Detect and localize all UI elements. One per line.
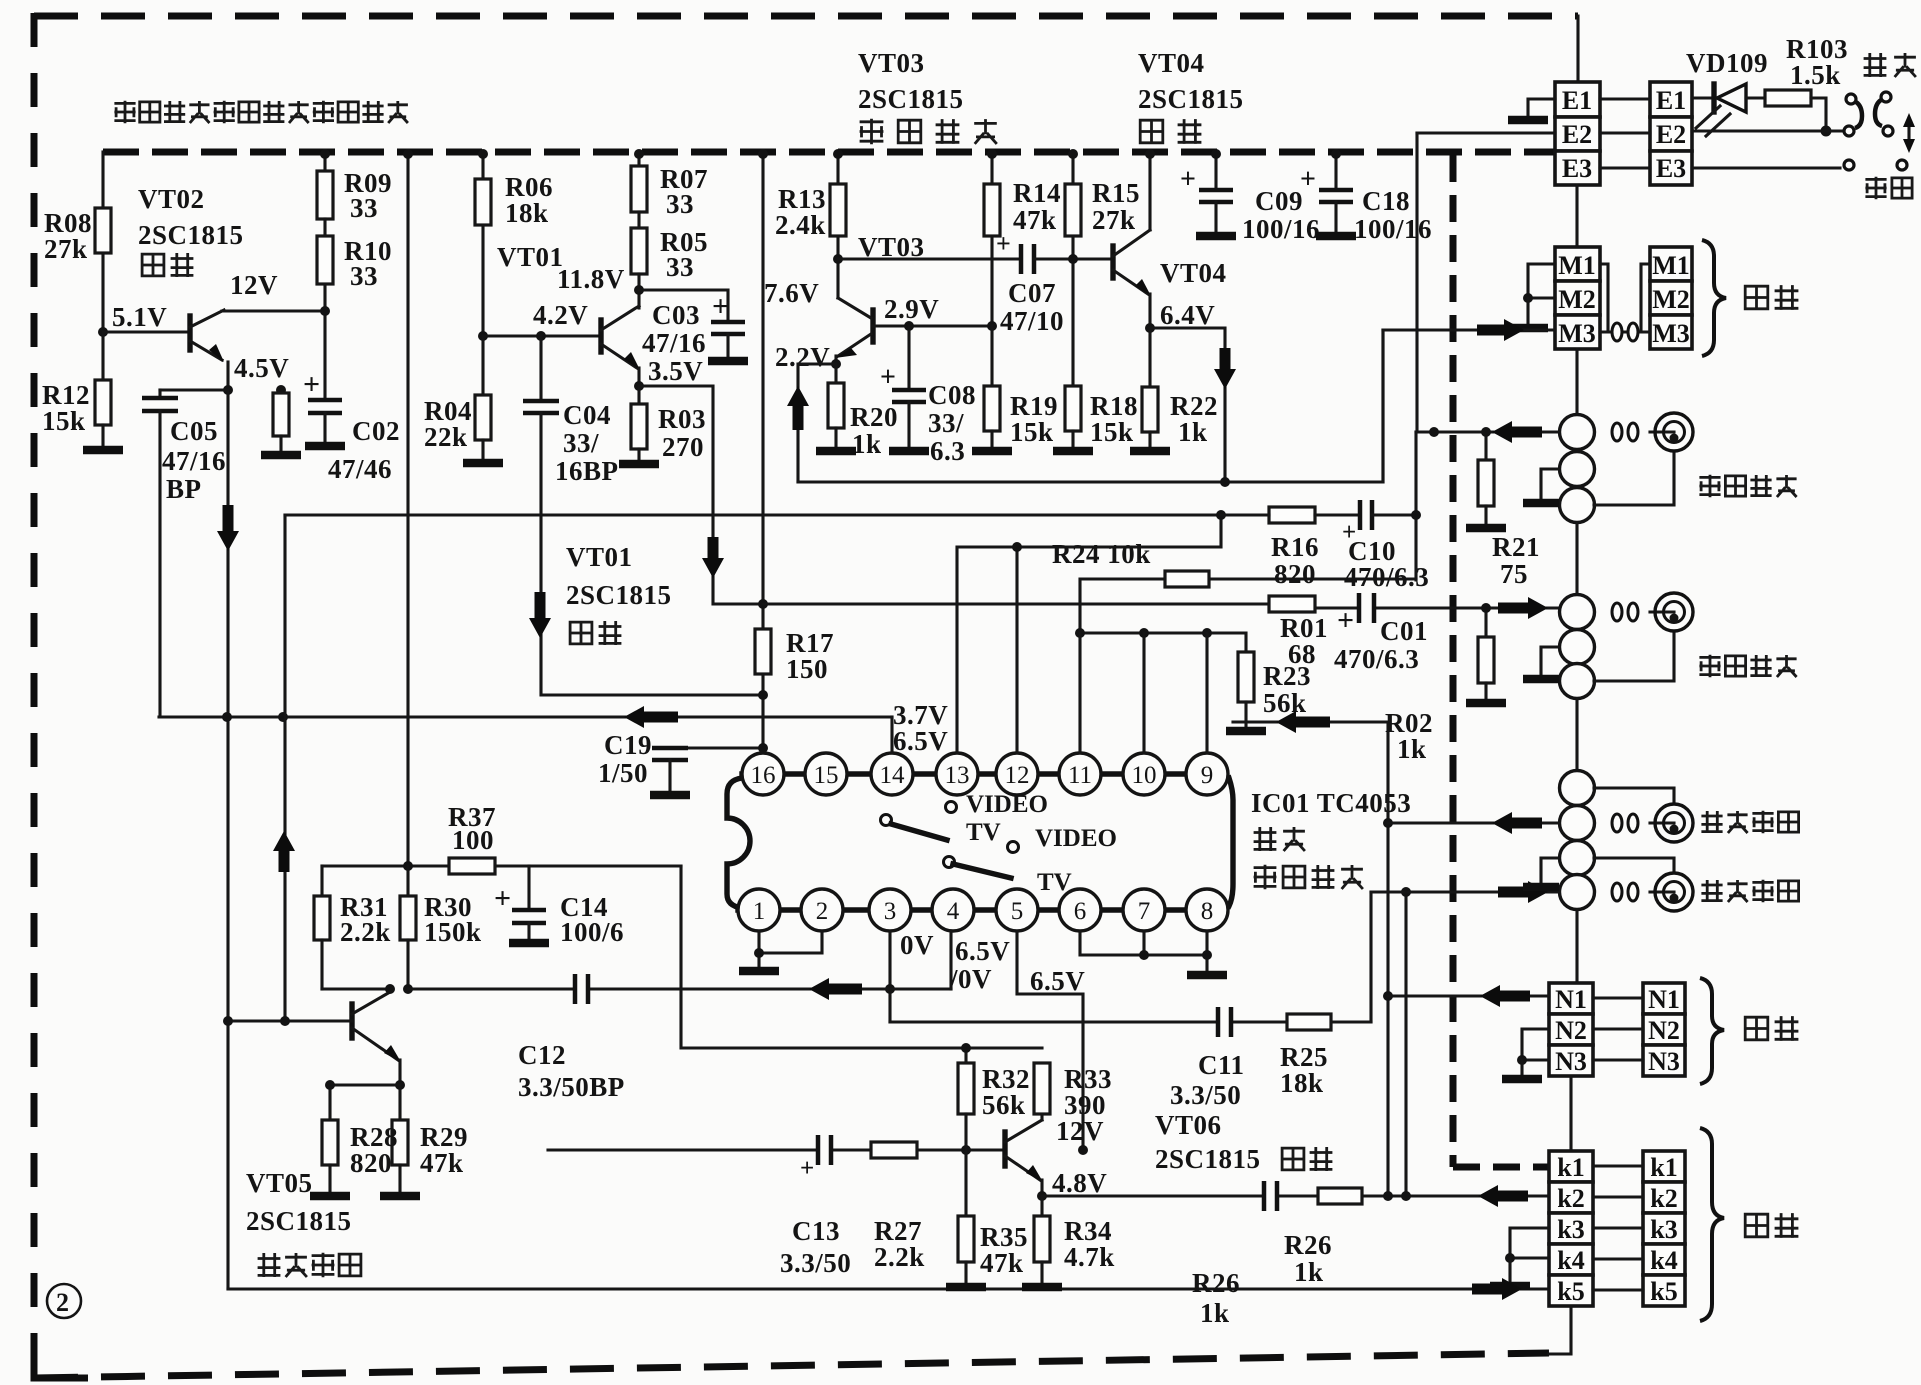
- ground under C09: [1196, 232, 1236, 241]
- svg-text:15k: 15k: [1090, 417, 1134, 447]
- VT05 emitter node: [398, 1060, 401, 1085]
- outer dashed enclosure border top: [34, 13, 1578, 20]
- svg-text:4: 4: [947, 898, 960, 925]
- ground under R04: [463, 459, 503, 468]
- resistor R14: [990, 152, 993, 184]
- pin 1: [738, 889, 780, 931]
- connector k3 right: [1643, 1213, 1685, 1244]
- capacitor C18 electrolytic: [1334, 152, 1337, 190]
- connector k2 right: [1643, 1182, 1685, 1213]
- svg-text:VIDEO: VIDEO: [1035, 825, 1117, 852]
- svg-text:E2: E2: [1656, 120, 1686, 149]
- bus M3 riser crossing: [1381, 330, 1384, 482]
- svg-text:VT04: VT04: [1138, 48, 1205, 78]
- svg-text:470/6.3: 470/6.3: [1334, 644, 1419, 674]
- pin 6: [1059, 889, 1101, 931]
- wire R15 to VT04 base line: [1071, 236, 1074, 386]
- wire C04 down to line with arrow to R17 bottom: [541, 413, 763, 695]
- resistor R27 horizontal: [871, 1142, 917, 1158]
- feedback wire left of emitter with up arrow: [798, 364, 836, 482]
- IC body outline with notch: [727, 778, 750, 908]
- svg-text:C08: C08: [928, 380, 976, 410]
- svg-text:13: 13: [945, 762, 970, 789]
- wire R19 ground: [990, 431, 993, 448]
- wire R22 ground: [1148, 432, 1151, 448]
- svg-text:5.1V: 5.1V: [112, 302, 167, 332]
- svg-text:100: 100: [452, 825, 494, 855]
- audio-out contacts: [1612, 883, 1622, 901]
- svg-text:2SC1815: 2SC1815: [858, 84, 964, 114]
- ground under R02: [1466, 699, 1506, 708]
- wire video-out to audio group: [1575, 699, 1578, 771]
- svg-text:820: 820: [1274, 559, 1316, 589]
- resistor R30: [406, 866, 409, 896]
- resistor R02: [1484, 608, 1487, 637]
- pin11 riser: [1078, 633, 1081, 753]
- M1 M2 ground ties: [1528, 264, 1555, 298]
- E2 wire to bus: [1417, 131, 1555, 134]
- svg-text:2.2k: 2.2k: [874, 1242, 925, 1272]
- N brace: [1700, 978, 1724, 1084]
- resistor R01 horizontal: [1269, 596, 1315, 612]
- svg-text:+: +: [303, 368, 321, 401]
- svg-text:7: 7: [1138, 898, 1151, 925]
- svg-text:M2: M2: [1652, 285, 1690, 314]
- video-in line with arrow: [1416, 430, 1559, 433]
- transistor VT04: [1110, 246, 1115, 278]
- svg-text:1k: 1k: [1397, 734, 1427, 764]
- wire R13 to collector node: [836, 236, 839, 298]
- svg-text:VT02: VT02: [138, 184, 205, 214]
- wire emitter right and down to R17 top line: [639, 386, 763, 604]
- audio-out sleeve jumper: [1594, 858, 1674, 873]
- ground at E1: [1508, 116, 1548, 125]
- IC right edge: [1229, 778, 1233, 906]
- wire audio group down to N1: [1575, 910, 1578, 983]
- audio-in line with arrow: [1388, 821, 1559, 824]
- wire R18 ground: [1071, 431, 1074, 448]
- VT02 collector wire to 12V node: [222, 309, 325, 312]
- svg-text:15k: 15k: [1010, 417, 1054, 447]
- resistor R19: [990, 326, 993, 386]
- svg-text:2.2V: 2.2V: [775, 342, 830, 372]
- svg-text:N3: N3: [1648, 1047, 1680, 1076]
- VT05 collector line to C12: [322, 989, 951, 992]
- connector N1 right: [1643, 983, 1685, 1014]
- label vt04cn: [1140, 119, 1201, 144]
- svg-text:C13: C13: [792, 1216, 840, 1246]
- ground under C14: [509, 939, 549, 948]
- svg-text:M1: M1: [1558, 251, 1596, 280]
- N row links: [1593, 998, 1643, 1060]
- audio line down to VT05 base: [283, 515, 286, 1021]
- base node: [961, 1145, 971, 1155]
- connector k4 right: [1643, 1244, 1685, 1275]
- svg-text:14: 14: [880, 762, 906, 789]
- ground at M2: [1508, 324, 1548, 333]
- svg-text:7.6V: 7.6V: [764, 278, 819, 308]
- pin 13: [936, 753, 978, 795]
- M1 link drop right: [1641, 264, 1650, 332]
- signal arrow down on VT04 output: [1220, 348, 1231, 373]
- svg-text:E2: E2: [1562, 120, 1592, 149]
- pin10 riser: [1142, 633, 1145, 753]
- svg-text:VT05: VT05: [246, 1168, 313, 1198]
- audio-in contacts: [1612, 814, 1622, 832]
- label vout: [1699, 655, 1796, 678]
- svg-text:12: 12: [1005, 762, 1030, 789]
- pin12 riser to video out line: [1015, 547, 1018, 753]
- svg-text:33: 33: [350, 261, 378, 291]
- svg-text:N3: N3: [1555, 1047, 1587, 1076]
- svg-text:M3: M3: [1652, 319, 1690, 348]
- resistor R31: [320, 866, 323, 896]
- video-out arrow: [1498, 603, 1532, 614]
- k5 wire down to border: [1549, 1306, 1571, 1354]
- label ic_switch: [1254, 865, 1363, 889]
- wire R05 to collector node: [637, 274, 640, 308]
- ground under R12: [83, 446, 123, 455]
- wire C08 ground: [907, 402, 910, 448]
- svg-text:15: 15: [814, 762, 839, 789]
- svg-text:1k: 1k: [1178, 417, 1208, 447]
- pin4 riser down to C12 line: [949, 931, 952, 989]
- R25 riser to audio out: [1369, 892, 1372, 1022]
- svg-text:27k: 27k: [1092, 205, 1136, 235]
- wire from outer border corner down to E1: [1576, 16, 1579, 82]
- svg-text:R24 10k: R24 10k: [1052, 539, 1151, 569]
- audio-out mid contact ground: [1541, 858, 1559, 884]
- svg-text:C19: C19: [604, 730, 652, 760]
- ground under R21: [1466, 524, 1506, 533]
- pin 8: [1186, 889, 1228, 931]
- svg-text:+: +: [494, 882, 512, 915]
- pin 15: [805, 753, 847, 795]
- connector E1 left: [1555, 82, 1600, 117]
- svg-text:VT01: VT01: [566, 542, 633, 572]
- resistor R11 (unlabelled) on emitter node: [279, 390, 282, 393]
- svg-text:N2: N2: [1555, 1016, 1587, 1045]
- pin14 riser: [890, 717, 893, 753]
- ground under R11: [261, 451, 301, 460]
- ground under C19: [650, 791, 690, 800]
- svg-text:C18: C18: [1362, 186, 1410, 216]
- svg-text:47/16: 47/16: [642, 328, 706, 358]
- emitter wire left to C05: [160, 388, 228, 391]
- capacitor C05: [158, 390, 161, 398]
- wire collector node to C03: [639, 290, 728, 322]
- svg-text:2: 2: [56, 1288, 70, 1317]
- svg-text:N1: N1: [1555, 985, 1587, 1014]
- resistor R26 horizontal: [1318, 1188, 1362, 1204]
- coupling capacitor on k2 line: [1264, 1181, 1277, 1211]
- svg-text:820: 820: [350, 1148, 392, 1178]
- label vt06cn: [1282, 1147, 1332, 1171]
- wire R14 to base node: [990, 236, 993, 326]
- connector M3 left: [1555, 315, 1600, 349]
- svg-text:k5: k5: [1650, 1277, 1677, 1306]
- resistor R13: [836, 152, 839, 184]
- ground under pin8: [1187, 971, 1227, 980]
- svg-text:10: 10: [1132, 762, 1157, 789]
- ground under pin1: [739, 967, 779, 976]
- svg-text:33: 33: [350, 193, 378, 223]
- node R10 / collector: [323, 284, 326, 400]
- wire R12 to ground: [101, 425, 104, 448]
- ground under R22: [1130, 447, 1170, 456]
- RCA jack audio out: [1650, 890, 1674, 893]
- svg-text:3.3/50: 3.3/50: [780, 1248, 851, 1278]
- connector N3 left: [1549, 1045, 1593, 1076]
- 12V riser to VT05 rail: [406, 152, 409, 866]
- svg-text:11.8V: 11.8V: [557, 264, 625, 294]
- VT03 emitter node 2.2V: [834, 356, 837, 364]
- svg-text:R26: R26: [1192, 1268, 1240, 1298]
- pin 12: [996, 753, 1038, 795]
- IC top pin chain: [742, 771, 1186, 776]
- pin16 / R17 riser from rail: [761, 152, 764, 753]
- wire base node to R04: [481, 336, 484, 395]
- svg-text:4.7k: 4.7k: [1064, 1242, 1115, 1272]
- diode VD109: [1692, 96, 1712, 99]
- resistor R09: [323, 152, 326, 171]
- label aout: [1701, 880, 1798, 903]
- svg-text:+: +: [1180, 164, 1196, 195]
- svg-text:R26: R26: [1284, 1230, 1332, 1260]
- wire rail down through R06: [481, 152, 484, 179]
- wire R09-R10: [323, 219, 326, 236]
- svg-text:k2: k2: [1557, 1184, 1584, 1213]
- label vt05cn: [258, 1253, 361, 1277]
- PCB board right border (thick dashed): [1450, 155, 1457, 1167]
- svg-text:47k: 47k: [980, 1248, 1024, 1278]
- video-out switch circle 3: [1560, 664, 1595, 699]
- svg-text:6.3: 6.3: [930, 436, 965, 466]
- resistor R18: [1065, 386, 1081, 431]
- circled figure number 2: [47, 1284, 81, 1318]
- wire C03 to ground: [726, 334, 729, 358]
- M1 link drop left: [1600, 264, 1608, 332]
- pin 4: [932, 889, 974, 931]
- capacitor C10: [1360, 500, 1372, 530]
- label title: [114, 101, 408, 124]
- pin14 audio line: [159, 715, 892, 718]
- wire emitter right down to video-out line: [1150, 328, 1225, 482]
- capacitor C19: [688, 746, 763, 749]
- resistor R03: [637, 386, 640, 404]
- k row links: [1593, 1166, 1643, 1290]
- wire C10 to right bus: [1372, 513, 1416, 516]
- wire R31 to collector line: [320, 940, 323, 989]
- svg-text:100/16: 100/16: [1354, 214, 1432, 244]
- svg-text:1k: 1k: [1294, 1257, 1324, 1287]
- TV plug hooks: [1846, 94, 1856, 104]
- VT06 emitter node 4.8V: [1040, 1180, 1043, 1196]
- E3-E3 link: [1600, 166, 1650, 169]
- connector E3 left: [1555, 151, 1600, 185]
- transistor VT06: [1002, 1132, 1007, 1166]
- audio-out line with arrow: [1371, 890, 1559, 893]
- pin 10: [1123, 753, 1165, 795]
- pin 7: [1123, 889, 1165, 931]
- VT02 emitter node 4.5V: [226, 362, 229, 390]
- wire R06 to base node: [481, 225, 484, 336]
- svg-text:+: +: [880, 362, 896, 393]
- transistor VT05: [349, 1004, 354, 1038]
- signal arrow left on pin14 line: [640, 712, 678, 723]
- svg-text:270: 270: [662, 432, 704, 462]
- svg-text:M1: M1: [1652, 251, 1690, 280]
- svg-text:2SC1815: 2SC1815: [138, 220, 244, 250]
- connector N3 right: [1643, 1045, 1685, 1076]
- connector k5 left: [1549, 1275, 1593, 1306]
- ground under C08: [889, 447, 929, 456]
- pin3 riser down: [888, 931, 891, 1022]
- svg-text:E3: E3: [1656, 154, 1686, 183]
- svg-text:R14: R14: [1013, 178, 1061, 208]
- svg-text:C05: C05: [170, 416, 218, 446]
- resistor R28: [330, 1085, 400, 1120]
- connector k1 left: [1549, 1151, 1593, 1182]
- capacitor C08 electrolytic: [904, 321, 914, 331]
- pin 11: [1059, 753, 1101, 795]
- wire N3 to k1: [1569, 1076, 1572, 1151]
- signal arrow down on emitter bus: [223, 505, 234, 535]
- resistor R34: [1040, 1196, 1043, 1216]
- resistor R15: [1071, 152, 1074, 184]
- bus R24/C10 up: [1414, 432, 1417, 580]
- label vt02cn: [142, 253, 193, 277]
- ground under R19: [972, 447, 1012, 456]
- svg-text:k4: k4: [1650, 1246, 1677, 1275]
- svg-text:2: 2: [816, 898, 829, 925]
- svg-text:VD109: VD109: [1686, 48, 1768, 78]
- svg-text:M3: M3: [1558, 319, 1596, 348]
- E1-E1 link: [1600, 97, 1650, 100]
- audio switch circle 3: [1560, 841, 1595, 876]
- wire VT02 emitter bus down (audio): [226, 390, 229, 1289]
- svg-text:18k: 18k: [1280, 1068, 1324, 1098]
- svg-text:/0V: /0V: [949, 964, 992, 994]
- capacitor C02 electrolytic: [308, 400, 342, 413]
- connector N1 left: [1549, 983, 1593, 1014]
- svg-text:k1: k1: [1557, 1153, 1584, 1182]
- audio-in top jumper: [1594, 788, 1674, 804]
- resistor R10: [317, 236, 333, 284]
- RCA jack audio in: [1650, 821, 1674, 824]
- ground under R18: [1053, 447, 1093, 456]
- svg-text:3.3/50BP: 3.3/50BP: [518, 1072, 625, 1102]
- connector k5 right: [1643, 1275, 1685, 1306]
- capacitor C07: [1021, 244, 1034, 274]
- svg-text:0V: 0V: [900, 930, 934, 960]
- connector M1 right: [1650, 247, 1692, 281]
- svg-text:6.5V: 6.5V: [893, 726, 948, 756]
- PCB board top border (thick dashed 12V rail): [103, 149, 1555, 156]
- wire R16 to C10: [1221, 513, 1360, 516]
- up-down arrow: [1907, 124, 1910, 142]
- svg-text:VT03: VT03: [858, 48, 925, 78]
- svg-text:k2: k2: [1650, 1184, 1677, 1213]
- pin 3: [869, 889, 911, 931]
- PCB board bottom-right border stub to k1: [1453, 1164, 1549, 1171]
- svg-text:33: 33: [666, 189, 694, 219]
- label vt01cn: [570, 621, 621, 645]
- svg-text:47k: 47k: [420, 1148, 464, 1178]
- pin13 riser with jog to audio line: [957, 515, 1221, 753]
- svg-text:15k: 15k: [42, 406, 86, 436]
- audio switch circle 2: [1560, 806, 1595, 841]
- svg-text:E1: E1: [1656, 86, 1686, 115]
- signal arrow left on C12 line: [825, 984, 862, 995]
- svg-text:47/46: 47/46: [328, 454, 392, 484]
- svg-text:56k: 56k: [982, 1090, 1026, 1120]
- resistor R08: [95, 208, 111, 253]
- svg-text:VIDEO: VIDEO: [966, 791, 1048, 818]
- label zhuban_n: [1745, 1016, 1798, 1041]
- svg-text:+: +: [800, 1155, 814, 1182]
- svg-text:12V: 12V: [1056, 1116, 1104, 1146]
- svg-text:+: +: [1300, 164, 1316, 195]
- svg-text:3: 3: [884, 898, 897, 925]
- emitter output line to k2: [1042, 1194, 1549, 1197]
- connector N2 left: [1549, 1014, 1593, 1045]
- svg-text:2SC1815: 2SC1815: [1155, 1144, 1261, 1174]
- svg-text:TV: TV: [1037, 869, 1072, 896]
- resistor R06: [475, 179, 491, 225]
- pin9 riser: [1205, 633, 1208, 753]
- connector M2 left: [1555, 281, 1600, 315]
- E2-E2 link: [1600, 131, 1650, 134]
- VT04 emitter node 6.4V: [1148, 294, 1151, 328]
- capacitor C04: [539, 336, 542, 401]
- M brace: [1702, 240, 1726, 356]
- video-in switch circle 3: [1560, 488, 1595, 523]
- video contact circles: [1844, 160, 1854, 170]
- connector M3 right: [1650, 315, 1692, 349]
- label zhuban_m: [1745, 285, 1798, 310]
- video-out switch circle 2: [1560, 630, 1595, 665]
- pin 9: [1186, 753, 1228, 795]
- signal arrow down on emitter wire: [708, 537, 719, 562]
- svg-text:C03: C03: [652, 300, 700, 330]
- svg-text:150: 150: [786, 654, 828, 684]
- svg-text:1k: 1k: [852, 429, 882, 459]
- wire R07-R05: [637, 212, 640, 228]
- svg-text:+: +: [712, 290, 730, 323]
- svg-text:k4: k4: [1557, 1246, 1584, 1275]
- svg-text:E3: E3: [1562, 154, 1592, 183]
- svg-text:1.5k: 1.5k: [1790, 60, 1841, 90]
- ground under R29: [380, 1192, 420, 1201]
- svg-text:C01: C01: [1380, 616, 1428, 646]
- connector E2 left: [1555, 117, 1600, 151]
- connector E1 right: [1650, 82, 1692, 117]
- svg-text:2SC1815: 2SC1815: [566, 580, 672, 610]
- connector M2 right: [1650, 281, 1692, 315]
- outer dashed enclosure border left: [31, 13, 38, 1376]
- video-out contacts: [1612, 603, 1622, 621]
- N2 N3 ground ties: [1522, 1029, 1549, 1060]
- pins 6-7-8 ground tie: [1080, 931, 1207, 972]
- svg-text:56k: 56k: [1263, 688, 1307, 718]
- pin 16: [742, 753, 784, 795]
- transistor VT03 (base right): [870, 310, 875, 342]
- resistor R17: [755, 629, 771, 674]
- wire E to M: [1575, 185, 1578, 247]
- wire R03 to ground: [637, 449, 640, 462]
- resistor R07: [637, 152, 640, 166]
